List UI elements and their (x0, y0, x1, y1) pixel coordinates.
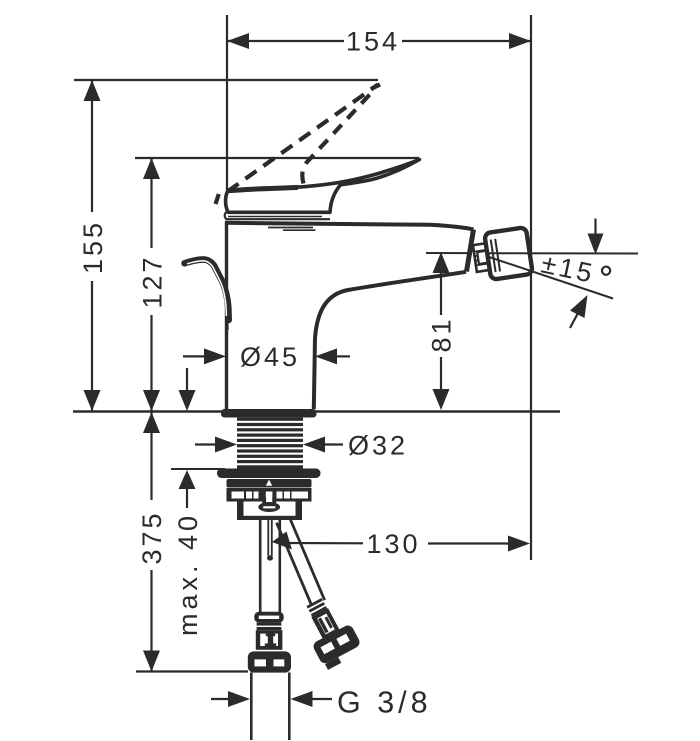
valve body (256, 630, 283, 650)
dim O45 (183, 355, 207, 357)
mounting nut bar2 (227, 479, 312, 488)
svg-text:max. 40: max. 40 (173, 512, 203, 636)
dim G3/8 (211, 698, 230, 700)
dim max 40 (186, 368, 188, 391)
angle reference horizontal line (426, 252, 470, 254)
svg-text:81: 81 (427, 316, 457, 352)
dim O32 (195, 443, 217, 445)
pop-up rod (185, 259, 229, 320)
extension line right of 154 (530, 15, 532, 560)
dim 81 (440, 268, 442, 315)
svg-text:154: 154 (346, 27, 400, 57)
dim 127 (135, 157, 419, 159)
svg-text:Ø32: Ø32 (348, 431, 408, 461)
dim 130 (272, 532, 292, 550)
cartridge seam lines (268, 227, 313, 229)
spout end face (467, 230, 474, 272)
angle down arrow (594, 219, 596, 241)
threaded shank stripes (237, 418, 303, 469)
svg-text:G 3/8: G 3/8 (337, 686, 432, 720)
svg-text:127: 127 (138, 254, 168, 308)
dim 154 (227, 40, 344, 42)
svg-text:155: 155 (78, 220, 108, 274)
flexible hose (277, 517, 325, 605)
bottom supply pipe G3/8 (250, 673, 253, 741)
label +-15deg (539, 248, 612, 292)
pull rod inside pipe (267, 519, 269, 556)
mounting surface line (73, 410, 560, 412)
slotted ring (227, 488, 312, 502)
body underside curve (314, 272, 466, 409)
svg-text:130: 130 (366, 529, 420, 559)
dim 155 (74, 79, 378, 81)
mounting nut bar1 (217, 469, 321, 479)
svg-text:Ø45: Ø45 (240, 342, 300, 372)
angle up arrow (570, 313, 578, 328)
supply pipe vertical (259, 519, 262, 613)
svg-text:375: 375 (137, 510, 167, 564)
dim 375 (150, 412, 152, 500)
faucet body left edge (225, 222, 228, 410)
dashed lever (open position) (228, 85, 379, 192)
bottom nut (248, 651, 291, 672)
body top edge (225, 223, 474, 230)
tailpiece (237, 502, 244, 517)
aerator (471, 227, 532, 282)
angle-stop collar nut (254, 612, 283, 623)
base flange (221, 409, 317, 418)
lever cap (225, 212, 330, 219)
hose end fitting (295, 592, 365, 671)
rings (257, 623, 282, 626)
extension line left of 154 / body left (226, 15, 228, 192)
lever handle solid (226, 160, 420, 213)
angle tilted line (489, 257, 613, 299)
